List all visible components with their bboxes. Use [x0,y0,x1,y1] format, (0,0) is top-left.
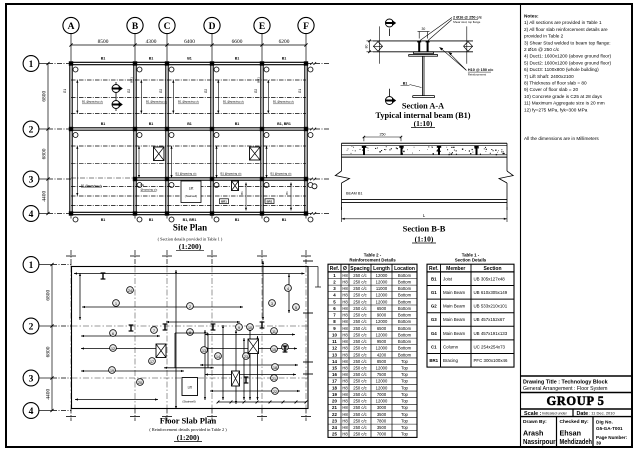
svg-text:80: 80 [365,45,369,49]
shear studs (section B-B) [362,146,479,155]
svg-text:250 c/c: 250 c/c [353,425,367,430]
svg-text:17: 17 [332,379,337,384]
joists B1 bay B-C rows 2-3 [138,146,158,191]
svg-text:UB 305x127x48: UB 305x127x48 [474,276,506,281]
svg-text:9: 9 [238,326,240,330]
grid bubble 4 (floor slab plan) [23,403,71,419]
svg-text:B1: B1 [240,191,244,195]
svg-text:11: 11 [272,330,276,334]
svg-text:9) Cover of floor slab = 20: 9) Cover of floor slab = 20 [524,87,578,92]
svg-text:3: 3 [29,175,34,185]
duct 1 (floor plan) [156,344,166,358]
svg-text:Top: Top [401,425,408,430]
svg-text:4300: 4300 [146,39,157,45]
joist center line y=113.4 [71,112,306,114]
grid line C (floor slab plan) [162,250,172,421]
svg-text:BR1: BR1 [429,358,438,363]
svg-text:Reinforcement: Reinforcement [468,73,486,77]
svg-text:250: 250 [380,132,386,136]
svg-text:B1: B1 [149,57,154,61]
grid beam row 4 (B1) [70,212,309,222]
svg-text:Top: Top [401,392,408,397]
svg-text:18: 18 [332,385,337,390]
rebar span bar at stair opening (floor plan) [164,367,214,369]
svg-text:6200: 6200 [279,39,290,45]
svg-text:H8: H8 [342,279,348,284]
rebar span bar h7 (floor plan) [75,398,158,400]
svg-text:Bottom: Bottom [398,279,412,284]
svg-text:14: 14 [332,359,337,364]
rebar span bar h9 (floor plan) [205,347,297,349]
rebar span bar h10 (floor plan) [200,364,298,366]
rebar span bar v4 (floor plan) [256,336,258,400]
svg-text:19: 19 [332,392,337,397]
svg-text:UB 457x152x67: UB 457x152x67 [474,317,506,322]
svg-text:B1, BR1: B1, BR1 [277,122,291,126]
svg-text:5: 5 [295,306,297,310]
svg-text:2 Ø16 @ 250 c/c: 2 Ø16 @ 250 c/c [453,16,482,20]
joist center line y=97.5 [71,97,306,99]
svg-text:B1 @spacing c/c: B1 @spacing c/c [273,100,295,104]
joists B1 bay E-F rows 2-3 [265,146,292,178]
svg-text:H8: H8 [342,339,348,344]
svg-text:B1: B1 [285,191,289,195]
svg-text:Spacing: Spacing [350,266,369,272]
grid line E (floor slab plan) [257,250,267,421]
joist arrow bay rows 3-4 at x=246 [240,183,247,211]
svg-text:(1:200): (1:200) [179,242,202,251]
right top bracket (floor plan) [308,267,321,288]
site plan left dimension line 6800/6800/4400 [41,62,49,215]
svg-text:12) fy=275 MPa, fyk=300 MPa: 12) fy=275 MPa, fyk=300 MPa [524,107,588,112]
svg-text:250 c/c: 250 c/c [353,399,367,404]
joists B1 bay B-C rows 1-2 [140,80,167,113]
svg-text:12000: 12000 [376,279,388,284]
rebar span bar v7 (floor plan) [288,274,290,313]
svg-text:G1: G1 [298,89,302,93]
svg-text:Top: Top [401,365,408,370]
svg-text:Date: Date [577,411,589,417]
svg-text:UB 457x191x133: UB 457x191x133 [474,331,508,336]
section marker top (A-A) [385,19,396,36]
svg-text:Bottom: Bottom [398,286,412,291]
svg-text:2: 2 [29,125,34,135]
svg-text:8) Thickness of floor slab = 8: 8) Thickness of floor slab = 80 [524,81,587,86]
svg-text:3: 3 [271,302,273,306]
joists B1 bay C-D rows 1-2 [172,80,199,113]
svg-text:6800: 6800 [45,290,51,301]
svg-text:12000: 12000 [376,332,388,337]
svg-text:Top: Top [401,418,408,423]
duct 3 (site plan) [232,181,239,191]
svg-text:B1 @spacing c/c: B1 @spacing c/c [81,183,103,187]
slab (section A-A) [373,41,473,52]
table 1 title [455,252,487,262]
svg-text:UC 254x254x73: UC 254x254x73 [474,344,506,349]
svg-text:9500: 9500 [377,339,387,344]
svg-text:A: A [68,22,75,32]
duct 2 (site plan) [250,147,261,160]
svg-text:B1 @spacing c/c: B1 @spacing c/c [178,100,200,104]
svg-text:Indicated under: Indicated under [542,411,568,415]
svg-text:H8: H8 [342,306,348,311]
table 1 section details rows [427,272,514,367]
svg-text:Drawing Title : Technology Bl: Drawing Title : Technology Block [523,380,608,386]
svg-text:2: 2 [29,322,34,332]
svg-text:Checked By:: Checked By: [560,419,589,425]
svg-text:B1: B1 [141,183,145,187]
svg-text:Top: Top [401,412,408,417]
caption Section B-B [403,224,446,244]
svg-text:7500: 7500 [377,372,387,377]
svg-text:H8: H8 [342,319,348,324]
svg-text:Bottom: Bottom [398,332,412,337]
svg-text:22: 22 [273,390,277,394]
bar mark circles 1-24 (floor plan) [109,285,300,395]
support centerline right (A-A) [466,26,468,63]
joist center line y=146 [71,145,306,147]
grid beam column A (G1) [63,64,72,214]
svg-text:H8: H8 [342,365,348,370]
svg-text:Top: Top [401,385,408,390]
columns C1 at grid intersections [69,61,308,215]
svg-text:1: 1 [29,60,34,70]
svg-text:Mehdizadeh: Mehdizadeh [560,437,593,446]
svg-text:B1: B1 [235,218,240,222]
svg-text:Floor Slab Plan: Floor Slab Plan [160,416,217,426]
svg-text:250 c/c: 250 c/c [353,385,367,390]
svg-text:7800: 7800 [377,418,387,423]
svg-text:Main Beam: Main Beam [443,304,466,309]
svg-text:H8: H8 [342,425,348,430]
rebar span bar h6 (floor plan) [81,370,184,372]
svg-text:( Reinforcement details provid: ( Reinforcement details provided in Tabl… [149,427,227,432]
svg-text:B1 @spacing c/c: B1 @spacing c/c [82,100,104,104]
rebar span bar h1 (floor plan) [74,272,305,274]
svg-text:H8: H8 [342,346,348,351]
svg-text:250 c/c: 250 c/c [353,372,367,377]
grid bubble C (site plan) [159,17,175,220]
svg-text:250 c/c: 250 c/c [353,306,367,311]
svg-text:5) Duct2: 1600x1200 (above gro: 5) Duct2: 1600x1200 (above ground floor) [524,60,611,65]
svg-text:PFC 300x100x46: PFC 300x100x46 [474,358,508,363]
svg-text:Main Beam: Main Beam [443,331,466,336]
joists B1 bay A-B rows 1-2 [76,80,103,113]
svg-text:250 c/c: 250 c/c [353,405,367,410]
bracing label BR1 at x=265 [265,199,274,204]
section marker bottom (A-A) [385,89,396,105]
svg-text:24: 24 [332,425,337,430]
svg-text:4400: 4400 [45,389,51,400]
svg-text:H8: H8 [342,332,348,337]
svg-text:30: 30 [422,27,426,31]
svg-text:H8: H8 [342,359,348,364]
grid bubble 1 (site plan) [23,56,330,72]
joist center line y=163.7 [71,163,306,165]
svg-text:25: 25 [332,432,337,437]
svg-text:2 Ø16 @ 250 c/c: 2 Ø16 @ 250 c/c [524,47,560,52]
svg-text:E: E [259,22,265,32]
svg-text:UB 610x305x149: UB 610x305x149 [474,290,508,295]
grid beam row 3 (B1) [134,178,309,180]
svg-text:H8: H8 [342,273,348,278]
svg-text:250 c/c: 250 c/c [353,346,367,351]
svg-text:250 c/c: 250 c/c [353,286,367,291]
svg-text:39: 39 [596,441,602,446]
svg-text:Bottom: Bottom [398,346,412,351]
svg-text:B1 @spacing c/c: B1 @spacing c/c [223,100,245,104]
svg-text:1: 1 [115,302,117,306]
svg-text:Bottom: Bottom [398,293,412,298]
scale and date row [524,410,615,416]
svg-text:B1, BR1: B1, BR1 [183,218,197,222]
floor slab outline [72,267,309,409]
svg-text:250 c/c: 250 c/c [353,313,367,318]
svg-text:10: 10 [332,332,337,337]
svg-text:4: 4 [29,407,34,417]
svg-text:2) All floor slab reinforcemen: 2) All floor slab reinforcement details … [524,27,608,32]
svg-text:D: D [209,22,216,32]
svg-text:4) Duct1: 1600x1200 (above gro: 4) Duct1: 1600x1200 (above ground floor) [524,54,611,59]
svg-text:Lift: Lift [188,386,192,390]
support centerline left (A-A) [378,26,380,63]
svg-text:H8: H8 [342,412,348,417]
table 2 reinforcement details rows [328,272,417,438]
caption Floor Slab Plan [149,416,227,443]
svg-text:BR1: BR1 [267,200,273,204]
svg-text:19: 19 [110,369,114,373]
svg-text:Section A-A: Section A-A [402,102,444,111]
slab (section B-B) [342,143,508,157]
lift shaft (floor plan) [182,378,198,404]
svg-text:B1: B1 [149,122,154,126]
rebar span bar h12 (floor plan) [210,390,300,392]
svg-text:6500: 6500 [377,306,387,311]
svg-text:3: 3 [29,374,34,384]
svg-text:(1:10): (1:10) [414,119,433,128]
svg-text:H8: H8 [342,286,348,291]
svg-text:4: 4 [29,210,34,220]
svg-text:Bottom: Bottom [398,339,412,344]
svg-text:Bottom: Bottom [398,326,412,331]
rebar span bar v5 (floor plan) [262,261,264,320]
svg-text:13: 13 [332,352,337,357]
svg-text:250 c/c: 250 c/c [353,332,367,337]
joist center line y=196 [71,195,306,197]
svg-text:1) All sections are provided i: 1) All sections are provided in Table 1 [524,20,602,25]
rebar span bar v8 (floor plan) [79,273,81,320]
svg-text:G2: G2 [127,89,131,93]
svg-text:6) Duct3: 1100x800 (whole buil: 6) Duct3: 1100x800 (whole building) [524,67,599,72]
svg-text:3500: 3500 [377,412,387,417]
dimension 250 stud spacing (B-B) [363,132,403,141]
grid line 3 dashed bay A-B [71,177,135,179]
svg-text:B1 @spacing c/c: B1 @spacing c/c [271,171,293,175]
svg-text:B1: B1 [282,57,287,61]
grid bubble 2 (floor slab plan) [23,318,71,334]
svg-text:H8: H8 [342,405,348,410]
rebar span bar h4 (floor plan) [81,335,160,337]
notes panel [524,14,611,142]
svg-text:250 c/c: 250 c/c [353,379,367,384]
svg-text:G2: G2 [431,304,437,309]
grid line 3 dashed (floor slab plan) [72,377,309,379]
svg-text:B1: B1 [431,276,437,281]
svg-text:(Stairwell): (Stairwell) [182,400,195,404]
rebar span bar v10 (floor plan) [243,338,245,400]
joists B1 bay E-F rows 1-2 [267,80,294,113]
svg-text:B1: B1 [101,218,106,222]
svg-text:20: 20 [138,381,142,385]
svg-text:H8: H8 [342,352,348,357]
svg-text:B1: B1 [101,122,106,126]
grid bubble 3 (site plan) [23,171,330,187]
svg-text:4400: 4400 [41,191,47,202]
svg-text:13: 13 [202,349,206,353]
svg-text:6800: 6800 [45,346,51,357]
grid line 2 dashed (floor slab plan) [72,325,309,327]
svg-text:7000: 7000 [377,392,387,397]
svg-text:@spacing c/c: @spacing c/c [141,187,158,191]
dig no cell [596,420,628,446]
right edge tick marks (floor plan) [303,261,313,374]
svg-text:6: 6 [112,332,114,336]
grid bubble 2 (site plan) [23,121,330,137]
svg-text:Reinforcement Details: Reinforcement Details [349,258,396,263]
grid beam column B (G2) [127,64,136,214]
svg-text:(Stairwell): (Stairwell) [185,194,198,198]
svg-text:B1 @spacing c/c: B1 @spacing c/c [176,171,198,175]
svg-text:G2: G2 [204,89,208,93]
svg-text:21: 21 [272,377,276,381]
grid bubble 4 (site plan) [23,206,330,222]
svg-text:G1: G1 [431,290,437,295]
svg-text:B1: B1 [187,57,192,61]
steel beam B1 I-section (A-A) [409,52,438,98]
grid line B (floor slab plan) [130,250,140,421]
svg-text:3000: 3000 [377,405,387,410]
svg-text:12000: 12000 [376,299,388,304]
svg-text:12000: 12000 [376,365,388,370]
joists B1 bay D-E rows 1-2 [217,80,244,113]
joist center line y=205.5 [71,205,306,207]
svg-text:B1: B1 [101,57,106,61]
dimension L beam length (B-B) [342,207,508,222]
joist arrow bay rows 3-4 at x=291 [285,183,292,211]
rebar span bar h3 (floor plan) [166,321,240,323]
svg-text:provided in Table 2: provided in Table 2 [524,34,564,39]
svg-text:Bottom: Bottom [398,299,412,304]
svg-text:Bracing: Bracing [443,358,458,363]
svg-text:H8: H8 [342,313,348,318]
svg-text:15: 15 [272,348,276,352]
pile circle right of F row 3 [312,184,317,189]
svg-text:H8: H8 [342,385,348,390]
svg-text:1: 1 [29,261,34,271]
label B1 web (A-A) [401,82,422,88]
svg-text:3500: 3500 [377,425,387,430]
svg-text:10) Concrete grade is C25 at 2: 10) Concrete grade is C25 at 28 days [524,94,603,99]
svg-text:H10 @ 150 c/c: H10 @ 150 c/c [468,68,493,72]
svg-text:Top: Top [401,359,408,364]
svg-text:250 c/c: 250 c/c [353,319,367,324]
svg-text:B1 @spacing c/c: B1 @spacing c/c [221,171,243,175]
svg-text:14: 14 [216,355,220,359]
svg-text:B1: B1 [235,57,240,61]
grid bubble B (site plan) [127,17,143,220]
svg-text:18: 18 [273,366,277,370]
svg-text:15: 15 [332,365,337,370]
svg-text:BEAM B1: BEAM B1 [346,192,362,196]
svg-text:Top: Top [401,372,408,377]
table 2 title [349,252,396,262]
svg-text:Top: Top [401,432,408,437]
svg-text:All the dimensions are in Mill: All the dimensions are in Millimeters [524,136,599,141]
svg-text:B1: B1 [235,122,240,126]
svg-text:Member: Member [446,266,465,272]
svg-text:Table 2 -: Table 2 - [364,252,382,257]
svg-text:H8: H8 [342,293,348,298]
svg-text:Ref.: Ref. [429,266,439,272]
svg-text:(1:200): (1:200) [177,433,200,442]
stair opening panel (floor plan) [175,333,208,368]
svg-text:10: 10 [248,326,252,330]
svg-text:H8: H8 [342,392,348,397]
svg-text:Main Beam: Main Beam [443,317,466,322]
svg-text:C: C [164,22,171,32]
svg-text:G2: G2 [254,89,258,93]
caption Section A-A [375,102,470,128]
grid beam column D (G2) [204,64,213,214]
svg-text:12000: 12000 [376,385,388,390]
rebar span bar h11 (floor plan) [205,373,296,375]
drawn by cell [523,419,556,446]
lift shaft (site plan) [181,181,201,203]
svg-text:B: B [132,22,139,32]
svg-text:17: 17 [150,360,154,364]
svg-text:Bottom: Bottom [398,273,412,278]
svg-text:23: 23 [332,418,337,423]
svg-text:3) Shear Stud welded to beam t: 3) Shear Stud welded to beam top flange: [524,40,611,45]
duct 3 (floor plan) [232,371,240,386]
svg-text:Shear stud, top flange: Shear stud, top flange [453,20,481,24]
svg-text:12000: 12000 [376,319,388,324]
svg-text:H8: H8 [342,299,348,304]
svg-text:Bottom: Bottom [398,319,412,324]
grid beam column F (G1) [298,64,307,214]
svg-text:250 c/c: 250 c/c [353,418,367,423]
svg-text:G5-GA-T001: G5-GA-T001 [596,426,623,431]
grid line D (floor slab plan) [207,250,217,421]
shear studs (section A-A) [417,41,429,52]
svg-text:H8: H8 [342,379,348,384]
svg-text:250 c/c: 250 c/c [353,412,367,417]
table 1 header [427,264,514,272]
svg-text:H8: H8 [342,418,348,423]
svg-text:250 c/c: 250 c/c [353,326,367,331]
svg-text:H8: H8 [342,372,348,377]
svg-text:6500: 6500 [377,326,387,331]
rebar span bar v9 (floor plan) [204,330,206,400]
svg-text:24: 24 [128,289,132,293]
rebar span bar h2 (floor plan) [82,306,243,308]
svg-text:16: 16 [332,372,337,377]
dimension 30 stud spacing (A-A) [418,27,430,39]
dimension 80 slab thickness (A-A) [365,40,374,54]
svg-text:General Arrangement : Floor Sy: General Arrangement : Floor System [523,386,607,392]
svg-text:( Section details provided in: ( Section details provided in Table 1 ) [158,237,223,242]
grid bubble A (site plan) [63,17,79,220]
